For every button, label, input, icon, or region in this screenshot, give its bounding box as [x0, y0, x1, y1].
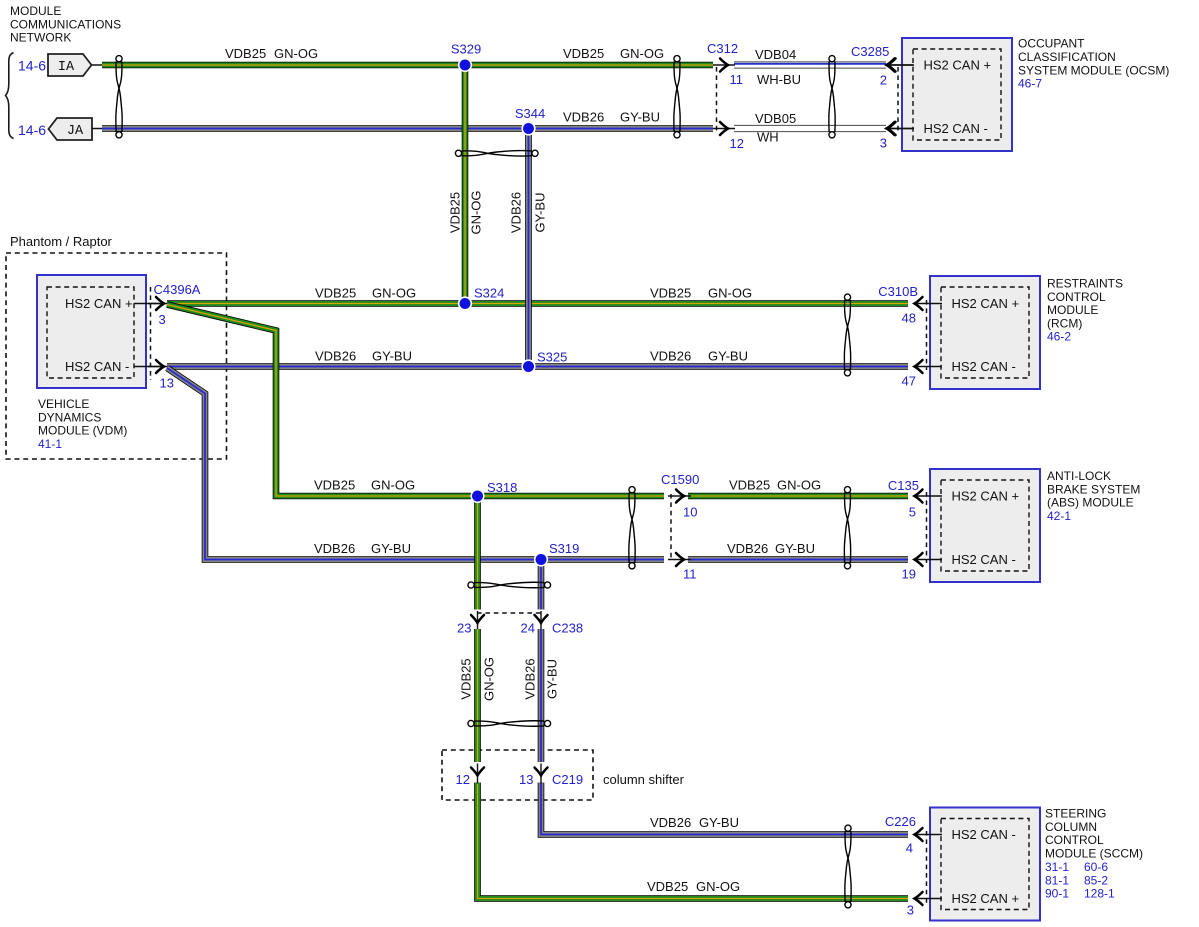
svg-text:GN-OG: GN-OG: [274, 46, 318, 61]
svg-text:3: 3: [907, 903, 914, 918]
svg-text:2: 2: [880, 72, 887, 87]
svg-text:VDB26: VDB26: [727, 541, 768, 556]
svg-text:S318: S318: [487, 480, 517, 495]
svg-text:GY-BU: GY-BU: [372, 348, 412, 363]
svg-text:90-1: 90-1: [1045, 887, 1069, 901]
svg-text:C219: C219: [552, 772, 583, 787]
svg-text:VDB26: VDB26: [523, 658, 538, 699]
svg-text:CONTROL: CONTROL: [1045, 833, 1104, 847]
svg-text:VDB25: VDB25: [650, 285, 691, 300]
svg-text:12: 12: [456, 772, 470, 787]
svg-text:13: 13: [519, 772, 533, 787]
svg-text:(RCM): (RCM): [1047, 316, 1082, 330]
svg-text:IA: IA: [58, 60, 75, 75]
svg-text:GY-BU: GY-BU: [620, 110, 660, 125]
svg-text:VDB04: VDB04: [755, 47, 796, 62]
svg-text:RESTRAINTS: RESTRAINTS: [1047, 277, 1123, 291]
svg-text:OCCUPANT: OCCUPANT: [1018, 37, 1085, 51]
svg-text:GY-BU: GY-BU: [371, 541, 411, 556]
svg-text:HS2 CAN +: HS2 CAN +: [65, 296, 133, 311]
svg-text:VDB26: VDB26: [314, 541, 355, 556]
svg-text:GN-OG: GN-OG: [696, 879, 740, 894]
svg-text:HS2 CAN +: HS2 CAN +: [924, 58, 992, 73]
svg-text:JA: JA: [67, 124, 84, 139]
svg-text:GN-OG: GN-OG: [372, 285, 416, 300]
svg-text:C238: C238: [552, 620, 583, 635]
svg-text:46-7: 46-7: [1018, 77, 1042, 91]
svg-text:VDB25: VDB25: [647, 879, 688, 894]
svg-text:VDB05: VDB05: [755, 111, 796, 126]
svg-text:19: 19: [902, 567, 916, 582]
svg-text:S329: S329: [451, 42, 481, 57]
svg-text:HS2 CAN +: HS2 CAN +: [952, 296, 1020, 311]
svg-text:HS2 CAN -: HS2 CAN -: [65, 359, 129, 374]
svg-text:14-6: 14-6: [18, 122, 46, 138]
svg-text:11: 11: [683, 567, 697, 582]
svg-text:24: 24: [521, 620, 535, 635]
svg-text:column shifter: column shifter: [603, 772, 685, 787]
svg-text:(ABS) MODULE: (ABS) MODULE: [1047, 496, 1134, 510]
svg-text:COMMUNICATIONS: COMMUNICATIONS: [10, 17, 121, 31]
svg-text:VDB26: VDB26: [563, 110, 604, 125]
svg-text:VDB25: VDB25: [314, 477, 355, 492]
svg-text:41-1: 41-1: [38, 437, 62, 451]
svg-text:HS2 CAN -: HS2 CAN -: [924, 121, 988, 136]
svg-text:HS2 CAN -: HS2 CAN -: [952, 359, 1016, 374]
svg-text:23: 23: [457, 620, 471, 635]
svg-text:HS2 CAN -: HS2 CAN -: [952, 827, 1016, 842]
svg-text:C3285: C3285: [851, 44, 889, 59]
svg-text:VDB26: VDB26: [650, 815, 691, 830]
svg-text:GN-OG: GN-OG: [482, 657, 497, 701]
svg-text:S324: S324: [474, 286, 504, 301]
svg-text:VDB25: VDB25: [729, 477, 770, 492]
svg-text:GY-BU: GY-BU: [708, 348, 748, 363]
svg-text:11: 11: [730, 72, 744, 87]
svg-text:VDB25: VDB25: [459, 658, 474, 699]
svg-text:VDB25: VDB25: [448, 192, 463, 233]
svg-text:VEHICLE: VEHICLE: [38, 397, 89, 411]
svg-text:GN-OG: GN-OG: [469, 190, 484, 234]
svg-text:MODULE: MODULE: [1047, 303, 1098, 317]
svg-text:WH: WH: [757, 130, 779, 145]
svg-text:3: 3: [880, 135, 887, 150]
svg-text:S325: S325: [537, 350, 567, 365]
svg-text:C1590: C1590: [661, 472, 699, 487]
svg-text:HS2 CAN -: HS2 CAN -: [952, 552, 1016, 567]
svg-text:81-1: 81-1: [1045, 873, 1069, 887]
svg-text:S344: S344: [515, 106, 545, 121]
svg-text:48: 48: [902, 311, 916, 326]
svg-text:WH-BU: WH-BU: [757, 72, 801, 87]
svg-text:GY-BU: GY-BU: [533, 193, 548, 233]
svg-text:GY-BU: GY-BU: [775, 541, 815, 556]
svg-text:C4396A: C4396A: [154, 282, 201, 297]
svg-text:VDB25: VDB25: [225, 46, 266, 61]
svg-text:12: 12: [730, 136, 744, 151]
svg-text:BRAKE SYSTEM: BRAKE SYSTEM: [1047, 482, 1140, 496]
svg-text:GN-OG: GN-OG: [777, 477, 821, 492]
svg-text:13: 13: [160, 376, 174, 391]
svg-text:DYNAMICS: DYNAMICS: [38, 410, 101, 424]
svg-text:ANTI-LOCK: ANTI-LOCK: [1047, 469, 1111, 483]
svg-text:10: 10: [683, 505, 697, 520]
svg-text:STEERING: STEERING: [1045, 807, 1106, 821]
svg-text:85-2: 85-2: [1084, 873, 1108, 887]
svg-text:SYSTEM MODULE (OCSM): SYSTEM MODULE (OCSM): [1018, 63, 1169, 77]
svg-text:5: 5: [909, 505, 916, 520]
svg-text:46-2: 46-2: [1047, 330, 1071, 344]
svg-text:CONTROL: CONTROL: [1047, 290, 1106, 304]
svg-text:42-1: 42-1: [1047, 509, 1071, 523]
svg-text:60-6: 60-6: [1084, 860, 1108, 874]
svg-text:GY-BU: GY-BU: [545, 659, 560, 699]
svg-text:MODULE (SCCM): MODULE (SCCM): [1045, 846, 1143, 860]
svg-text:S319: S319: [549, 541, 579, 556]
svg-text:31-1: 31-1: [1045, 860, 1069, 874]
svg-text:4: 4: [906, 841, 913, 856]
svg-text:C312: C312: [707, 41, 738, 56]
svg-text:GN-OG: GN-OG: [708, 285, 752, 300]
svg-text:C226: C226: [885, 814, 916, 829]
svg-text:GN-OG: GN-OG: [620, 46, 664, 61]
svg-text:3: 3: [159, 312, 166, 327]
svg-text:NETWORK: NETWORK: [10, 31, 71, 45]
svg-text:VDB25: VDB25: [315, 285, 356, 300]
svg-text:HS2 CAN +: HS2 CAN +: [952, 489, 1020, 504]
svg-text:CLASSIFICATION: CLASSIFICATION: [1018, 50, 1116, 64]
svg-text:COLUMN: COLUMN: [1045, 820, 1097, 834]
svg-text:VDB26: VDB26: [315, 348, 356, 363]
svg-text:MODULE: MODULE: [10, 4, 61, 18]
svg-text:C310B: C310B: [878, 284, 918, 299]
svg-text:MODULE (VDM): MODULE (VDM): [38, 424, 127, 438]
svg-text:GN-OG: GN-OG: [371, 477, 415, 492]
svg-text:C135: C135: [888, 478, 919, 493]
svg-text:VDB26: VDB26: [650, 348, 691, 363]
svg-text:128-1: 128-1: [1084, 887, 1115, 901]
svg-text:Phantom / Raptor: Phantom / Raptor: [10, 234, 113, 249]
svg-text:VDB25: VDB25: [563, 46, 604, 61]
svg-text:VDB26: VDB26: [509, 192, 524, 233]
svg-text:47: 47: [902, 374, 916, 389]
svg-text:GY-BU: GY-BU: [699, 815, 739, 830]
svg-text:14-6: 14-6: [18, 58, 46, 74]
svg-text:HS2 CAN +: HS2 CAN +: [952, 891, 1020, 906]
